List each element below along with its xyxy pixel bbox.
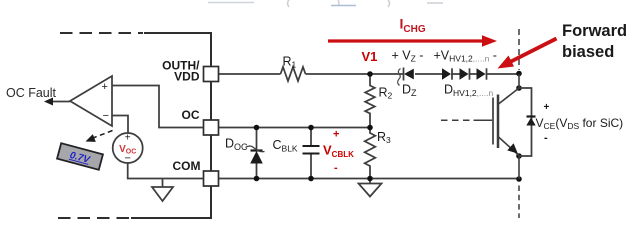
svg-text:-: - — [544, 132, 548, 144]
svg-text:COM: COM — [173, 159, 201, 173]
svg-text:-: - — [334, 162, 338, 174]
svg-text:−: − — [124, 153, 130, 165]
svg-text:+: + — [125, 133, 131, 144]
svg-text:OC Fault: OC Fault — [6, 86, 57, 100]
svg-text:Forward: Forward — [562, 22, 627, 40]
svg-text:VDD: VDD — [174, 70, 200, 84]
svg-text:+: + — [102, 81, 108, 93]
svg-text:+: + — [333, 129, 339, 141]
svg-text:−: − — [103, 110, 109, 122]
svg-text:+: + — [544, 102, 550, 113]
svg-text:+ VZ -: + VZ - — [392, 49, 424, 64]
svg-text:OC: OC — [182, 108, 200, 122]
svg-text:biased: biased — [562, 43, 614, 61]
svg-text:V1: V1 — [362, 49, 378, 64]
